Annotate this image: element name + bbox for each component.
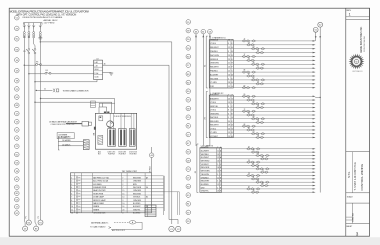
table row 9 [70, 200, 163, 202]
svg-text:16 GA RED: 16 GA RED [62, 139, 72, 142]
svg-text:VIO/WHT: VIO/WHT [210, 136, 219, 138]
svg-text:60: 60 [248, 128, 250, 130]
wire through block to right drop [103, 65, 170, 219]
acc wire 2 [58, 145, 83, 147]
connector X2 row 3 arrowhead [313, 103, 316, 105]
svg-text:LT BLU: LT BLU [210, 43, 217, 45]
connector X1 row 7 arrowhead [313, 64, 316, 66]
relay block circle symbol [107, 121, 114, 128]
crimp connector symbol 4 [39, 25, 42, 28]
relay block outline [95, 113, 136, 149]
mid terminal balloon M6 [186, 63, 191, 68]
svg-text:29: 29 [248, 160, 250, 162]
svg-text:44: 44 [257, 50, 259, 52]
connector X2 outline [209, 95, 233, 138]
connector X3 row 5 wire [200, 161, 315, 163]
svg-text:REDMOND WA USA: REDMOND WA USA [363, 35, 366, 52]
connector X2 row 4 splice diamonds [256, 106, 264, 108]
connector X2 row 4 wire [209, 107, 315, 109]
connector X3 row 4 splice diamonds [260, 158, 268, 160]
connector X3 row 12 arrowhead [313, 185, 316, 187]
switch S2 on feeder C [34, 49, 36, 51]
mid terminal balloon M10 [186, 98, 191, 103]
svg-text:92: 92 [248, 186, 250, 188]
svg-text:11: 11 [217, 177, 219, 179]
connector X1 row 11 arrowhead [313, 79, 316, 81]
left terminal balloon L10 [14, 103, 19, 108]
connector X1 row 10 arrowhead [313, 75, 316, 77]
cable assembly body [66, 123, 82, 125]
mid terminal balloon M19 [186, 176, 191, 181]
small junction box left of relay block [91, 101, 96, 108]
svg-text:LT GRN: LT GRN [210, 132, 217, 134]
connector X3 row 8 wire [200, 171, 315, 173]
mid terminal balloon M18 [186, 167, 191, 172]
svg-text:5: 5 [228, 78, 229, 80]
svg-text:BRN/WHT: BRN/WHT [210, 95, 219, 97]
connector X1 row 1 splice diamonds [242, 40, 250, 42]
bus terminal balloon A [313, 27, 318, 32]
connector X3 row 7 wire [200, 168, 315, 170]
left terminal balloon L16 [14, 152, 19, 157]
connector X1 row 5 splice diamonds [242, 55, 250, 57]
relay block top bracket [99, 103, 107, 113]
power feed wire B [202, 34, 204, 146]
svg-text:29: 29 [253, 101, 255, 103]
svg-text:RLY: RLY [98, 154, 101, 156]
svg-text:FLSH RLY: FLSH RLY [130, 154, 137, 156]
title block left divider [345, 8, 347, 236]
mid terminal balloon M24 [186, 219, 191, 224]
svg-text:RED/WHT: RED/WHT [201, 181, 210, 183]
svg-text:76: 76 [253, 190, 255, 192]
connector X3 row 3 arrowhead [313, 155, 316, 157]
svg-text:F: F [232, 67, 233, 69]
mid terminal balloon M14 [186, 132, 191, 137]
acc feed bracket [58, 137, 59, 151]
svg-text:YEL/GRN: YEL/GRN [201, 174, 210, 176]
connector X2 row 8 arrowhead [313, 122, 316, 124]
mini connector block [145, 205, 156, 217]
svg-text:98: 98 [262, 183, 264, 185]
mid terminal balloon M17 [186, 158, 191, 163]
svg-text:80: 80 [244, 85, 246, 87]
connector X1 row 5 wire [209, 56, 315, 58]
connector X2 row 10 splice diamonds [247, 129, 255, 131]
company logo starburst [349, 54, 365, 70]
terminal squares on top edge [104, 112, 106, 114]
connector X3 pin dividers [216, 148, 218, 193]
power feed wire A [195, 34, 197, 146]
bus terminal balloon B [318, 22, 323, 27]
connector X3 row 10 arrowhead [313, 178, 316, 180]
power feed wire C [209, 34, 211, 146]
table row 4 [70, 184, 163, 186]
connector X2 row 2 splice diamonds [247, 99, 255, 101]
left terminal balloon L6 [14, 68, 19, 73]
balloon on relay-table wire [149, 153, 154, 158]
connector X2 row 5 wire [209, 110, 315, 112]
bottom terminal balloon B4 [38, 220, 43, 225]
crimp connector symbol 1 [23, 25, 26, 28]
svg-text:ON 500 T4730 LEVELING KT. GT.: ON 500 T4730 LEVELING KT. GT. SERIES [22, 17, 63, 19]
svg-text:4: 4 [122, 213, 123, 215]
left terminal balloon L19 [14, 177, 19, 182]
mid terminal balloon M15 [186, 141, 191, 146]
connector X2 row 7 splice diamonds [251, 118, 259, 120]
connector X3 row 2 wire [200, 151, 315, 153]
svg-text:15: 15 [228, 86, 230, 88]
left terminal balloon L7 [14, 78, 19, 83]
svg-text:12: 12 [71, 213, 73, 215]
connector X3 row 6 arrowhead [313, 165, 316, 167]
svg-text:92: 92 [248, 58, 250, 60]
svg-text:1: 1 [217, 187, 218, 189]
connector X1 row 13 wire [209, 87, 315, 89]
svg-text:ORN/GRN: ORN/GRN [210, 63, 219, 65]
svg-text:F: F [232, 43, 233, 45]
connector X1 row 9 splice diamonds [242, 71, 250, 73]
mid terminal balloon M20 [186, 184, 191, 189]
svg-text:23: 23 [228, 59, 230, 61]
connector X2 row 12 splice diamonds [256, 136, 264, 138]
connector X2 row 12 wire [209, 136, 315, 138]
mid terminal balloon M21 [186, 193, 191, 198]
connector X2 row 11 splice diamonds [251, 133, 259, 135]
svg-text:53: 53 [248, 42, 250, 44]
svg-text:13: 13 [228, 136, 230, 138]
svg-text:39: 39 [257, 105, 259, 107]
svg-text:55: 55 [248, 98, 250, 100]
svg-text:24: 24 [257, 166, 259, 168]
svg-text:13: 13 [228, 67, 230, 69]
svg-text:WHT/BLK: WHT/BLK [210, 117, 219, 119]
connector X1 row 8 wire [209, 67, 315, 69]
mid terminal balloon M22 [186, 202, 191, 207]
connector X2 pin dividers [226, 95, 228, 138]
relay K3 [129, 129, 135, 147]
table row 12 [70, 210, 151, 212]
svg-text:23: 23 [228, 55, 230, 57]
connector X1 row 8 arrowhead [313, 67, 316, 69]
connector X3 row 4 arrowhead [313, 158, 316, 160]
connector X2 row 11 arrowhead [313, 133, 316, 135]
svg-text:21: 21 [44, 88, 46, 90]
svg-text:RED/GRN: RED/GRN [210, 121, 219, 123]
connector X1 row 11 wire [209, 79, 315, 81]
connector X2 row 10 arrowhead [313, 129, 316, 131]
svg-text:LT GRN: LT GRN [210, 82, 217, 84]
svg-text:P1: P1 [26, 216, 28, 218]
connector X3 row 13 splice diamonds [247, 188, 255, 190]
svg-text:F: F [220, 164, 221, 166]
svg-text:S1: S1 [23, 51, 25, 53]
svg-text:SCALE: SCALE [347, 196, 354, 199]
acc wire 1 [58, 141, 83, 143]
svg-text:FLSH RLY: FLSH RLY [108, 154, 115, 156]
svg-text:BLU/WHT: BLU/WHT [201, 157, 210, 159]
table row 2 [70, 178, 163, 180]
connector X3 row 2 arrowhead [313, 151, 316, 153]
connector X1 bracket [206, 36, 208, 88]
svg-text:3: 3 [217, 174, 218, 176]
svg-text:5: 5 [228, 117, 229, 119]
svg-text:ANT POS 1 OF 2: ANT POS 1 OF 2 [112, 229, 125, 232]
svg-text:P2: P2 [38, 216, 40, 218]
svg-text:12: 12 [228, 71, 230, 73]
svg-text:LT BLU: LT BLU [210, 102, 217, 104]
svg-text:PUR: PUR [210, 86, 215, 88]
connector X2 row 7 wire [209, 118, 315, 120]
svg-text:GRN/YEL: GRN/YEL [210, 106, 218, 108]
connector X1 row 5 arrowhead [313, 56, 316, 58]
connector X1 row 12 arrowhead [313, 83, 316, 85]
oval splice symbol [129, 221, 136, 224]
bus A stub wire [315, 32, 317, 41]
connector X1 row 4 arrowhead [313, 52, 316, 54]
svg-text:20: 20 [217, 161, 219, 163]
svg-text:C70X C71X: C70X C71X [107, 152, 115, 154]
connector X1 row 4 splice diamonds [256, 51, 264, 53]
svg-text:17: 17 [244, 54, 246, 56]
svg-text:DWG NO: DWG NO [353, 213, 355, 222]
svg-text:GRN/YEL: GRN/YEL [201, 147, 209, 149]
ground symbol (power block) [110, 72, 112, 75]
connector X3 row 10 splice diamonds [251, 178, 259, 180]
table row 10 [70, 204, 163, 206]
connector X2 row 6 wire [209, 114, 315, 116]
connector X1 row 9 arrowhead [313, 71, 316, 73]
left tab [94, 127, 96, 130]
svg-text:12: 12 [217, 157, 219, 159]
svg-text:26: 26 [257, 120, 259, 122]
connector X2 row 5 splice diamonds [242, 110, 250, 112]
svg-text:GRN/BLK: GRN/BLK [210, 59, 219, 61]
junction box terminal bracket [24, 23, 42, 25]
mid terminal balloon M5 [186, 54, 191, 59]
svg-text:X2: X2 [204, 117, 206, 119]
svg-text:EST 1966 CO: EST 1966 CO [353, 71, 364, 73]
crimp connector symbol 2 [28, 25, 31, 28]
connector X3 row 14 splice diamonds [251, 191, 259, 193]
mid terminal balloon M12 [186, 115, 191, 120]
svg-text:ACC FEED: ACC FEED [61, 136, 71, 139]
svg-text:PNK/BLU: PNK/BLU [210, 71, 219, 73]
connector X1 row 2 arrowhead [313, 44, 316, 46]
connector X2 row 9 splice diamonds [242, 125, 250, 127]
connector X3 row 5 arrowhead [313, 161, 316, 163]
wire with fuse F5 at y=65.2 [24, 65, 25, 66]
feeder wire D (x=40.5) [39, 42, 41, 220]
svg-text:16: 16 [228, 74, 230, 76]
acc connector block [83, 140, 89, 150]
connector X3 bracket [197, 144, 199, 193]
ground symbol (junction box) [39, 36, 41, 42]
left terminal balloon L13 [14, 128, 19, 133]
crimp connector symbol 3 [32, 25, 35, 28]
connector X1 row 3 arrowhead [313, 48, 316, 50]
paper bottom edge [0, 239, 380, 245]
svg-text:16: 16 [217, 167, 219, 169]
connector X3 row 14 wire [200, 191, 315, 193]
svg-text:1: 1 [349, 13, 351, 17]
left terminal balloon L5 [14, 58, 19, 63]
svg-text:F: F [232, 121, 233, 123]
left terminal balloon L23 [14, 204, 19, 209]
connector X3 outline [200, 148, 222, 193]
svg-text:GENIE INDUSTRIES INC: GENIE INDUSTRIES INC [361, 26, 363, 53]
svg-text:16: 16 [228, 39, 230, 41]
svg-text:6: 6 [217, 181, 218, 183]
svg-text:12: 12 [217, 184, 219, 186]
connector X1 row 9 wire [209, 71, 315, 73]
mid terminal balloon M1 [186, 20, 191, 25]
svg-text:YEL/GRN: YEL/GRN [210, 78, 219, 80]
feeder wire A (x=24.3) [23, 36, 25, 220]
connector X2 bracket [206, 92, 208, 138]
bus junction dot [320, 97, 321, 98]
mid terminal balloon M4 [186, 46, 191, 51]
connector X3 row 9 arrowhead [313, 175, 316, 177]
svg-text:78: 78 [253, 116, 255, 118]
connector X3 row 6 splice diamonds [251, 164, 259, 166]
svg-text:87: 87 [253, 163, 255, 165]
svg-text:28: 28 [228, 125, 230, 127]
connector X3 row 9 splice diamonds [247, 174, 255, 176]
bus B vertical wire [319, 27, 321, 192]
svg-text:23: 23 [248, 173, 250, 175]
svg-text:5: 5 [228, 95, 229, 97]
connector X1 row 13 arrowhead [313, 87, 316, 89]
connector X3 row 1 arrowhead [313, 148, 316, 150]
connector X1 row 3 wire [209, 48, 315, 50]
wire at y=81.8 into fuse block bottom [34, 81, 35, 82]
svg-text:88: 88 [244, 70, 246, 72]
connector X3 row 11 splice diamonds [256, 181, 264, 183]
left terminal balloon L3 [14, 37, 19, 42]
connector X2 row 8 splice diamonds [256, 121, 264, 123]
svg-text:15: 15 [244, 39, 246, 41]
left terminal balloon L9 [14, 95, 19, 100]
svg-text:46: 46 [248, 113, 250, 115]
connector X3 row 11 arrowhead [313, 181, 316, 183]
svg-text:RED/WHT: RED/WHT [210, 125, 219, 127]
connector X1 row 8 splice diamonds [256, 67, 264, 69]
svg-text:71: 71 [262, 170, 264, 172]
junction box lead wire 1 [23, 23, 25, 32]
svg-text:RED/WHT: RED/WHT [210, 47, 219, 49]
svg-text:N.T.S.: N.T.S. [348, 171, 351, 178]
svg-text:72: 72 [244, 109, 246, 111]
svg-text:68: 68 [244, 124, 246, 126]
left terminal balloon L17 [14, 160, 19, 165]
svg-text:28: 28 [228, 82, 230, 84]
connector X1 row 13 splice diamonds [242, 87, 250, 89]
mid terminal balloon M9 [186, 89, 191, 94]
connector X3 row 10 wire [200, 178, 315, 180]
bottom pair branch [169, 220, 178, 225]
svg-text:46: 46 [104, 64, 106, 66]
svg-text:GRN/BLK: GRN/BLK [201, 177, 210, 179]
relay block sub box [99, 116, 103, 121]
mid terminal balloon M23 [186, 210, 191, 215]
feeder wire C (x=35.0) [33, 38, 35, 44]
svg-text:C72X C73X: C72X C73X [118, 152, 126, 154]
mid terminal balloon M7 [186, 72, 191, 77]
bottom terminal balloon B2 [26, 220, 31, 225]
svg-text:12V FEED: 12V FEED [44, 22, 56, 24]
connector X2 row 7 arrowhead [313, 118, 316, 120]
svg-text:9: 9 [217, 164, 218, 166]
svg-text:LT BLU: LT BLU [210, 110, 217, 112]
svg-text:23: 23 [217, 191, 219, 193]
svg-text:23: 23 [253, 150, 255, 152]
connector X1 row 6 splice diamonds [247, 59, 255, 61]
svg-text:46: 46 [253, 62, 255, 64]
svg-text:8: 8 [228, 110, 229, 112]
svg-text:F5: F5 [36, 62, 38, 64]
svg-text:37: 37 [248, 74, 250, 76]
connector X2 row 6 arrowhead [313, 114, 316, 116]
spare label box [57, 133, 74, 139]
wire relay block to table [151, 147, 153, 153]
connector X3 row 6 wire [200, 165, 315, 167]
long wire y=41.9 to right drop [40, 42, 172, 220]
bottom terminal balloon B3 [34, 226, 39, 231]
feeder wire B (x=28.9) lower [28, 54, 30, 220]
svg-text:26: 26 [228, 128, 230, 130]
svg-text:34: 34 [257, 135, 259, 137]
svg-text:16 RED: 16 RED [149, 166, 151, 173]
svg-text:84: 84 [253, 46, 255, 48]
relay K1 [108, 129, 116, 147]
svg-text:FLSH RLY: FLSH RLY [119, 154, 126, 156]
connector X3 row 12 splice diamonds [260, 184, 268, 186]
left terminal balloon L4 [14, 47, 19, 52]
svg-text:TO CAB X RADIO: TO CAB X RADIO [90, 225, 106, 228]
svg-text:RED/WHT: RED/WHT [210, 67, 219, 69]
left terminal balloon L21 [14, 191, 19, 196]
table row 7 [70, 194, 163, 196]
connector X1 row 12 wire [209, 83, 315, 85]
connector X1 row 7 wire [209, 63, 315, 65]
svg-text:TO ENG CHAS X CONNECTOR: TO ENG CHAS X CONNECTOR [63, 89, 90, 92]
connector X2 row 5 arrowhead [313, 110, 316, 112]
svg-text:71: 71 [253, 176, 255, 178]
table row 11 [70, 207, 163, 209]
bottom terminal balloon C2 [176, 226, 181, 231]
connector X3 row 13 wire [200, 188, 315, 190]
mid terminal balloon M2 [186, 28, 191, 33]
wire to relay block top A [40, 98, 41, 99]
connector X2 row 3 splice diamonds [251, 103, 259, 105]
table column dividers [74, 173, 76, 213]
inline fuse F2 [28, 32, 30, 34]
svg-text:6: 6 [228, 113, 229, 115]
mid terminal balloon M3 [186, 37, 191, 42]
svg-text:PNK/BLU: PNK/BLU [210, 51, 219, 53]
inline fuse F1 [23, 32, 25, 34]
connector X2 row 2 wire [209, 99, 315, 101]
left terminal balloon L15 [14, 144, 19, 149]
svg-text:71: 71 [253, 131, 255, 133]
svg-text:VIO/WHT: VIO/WHT [201, 164, 210, 166]
connector X2 row 8 wire [209, 121, 315, 123]
left terminal balloon L2 [14, 26, 19, 31]
bottom terminal balloon B1 [23, 226, 28, 231]
connector X2 row 3 wire [209, 103, 315, 105]
battery disconnect switch [28, 49, 30, 51]
